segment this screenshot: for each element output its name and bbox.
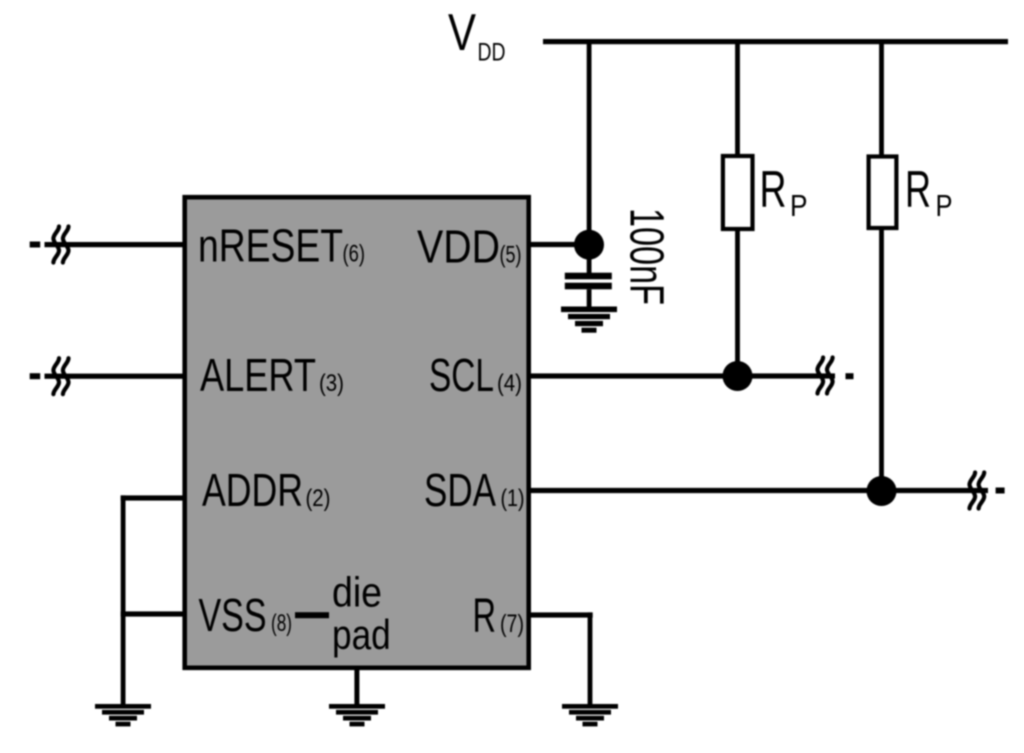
pin VDD(5) label <box>417 221 522 273</box>
wire Rp1 to SCL node <box>735 229 740 376</box>
resistor Rp2 (pull-up on SDA) <box>869 157 897 229</box>
ground (left, ADDR/VSS) <box>95 704 151 726</box>
node junction dot (SDA) <box>867 476 897 506</box>
wire VDD pin to decoupling node <box>529 242 591 247</box>
svg-text:SCL: SCL <box>429 349 494 401</box>
wire ADDR-VSS-ground vertical <box>121 495 126 704</box>
svg-text:VDD: VDD <box>417 221 500 273</box>
pin ALERT(3) label <box>200 349 344 401</box>
net VDD label <box>448 3 506 67</box>
pin SDA(1) label <box>424 464 525 516</box>
wire R pin to ground drop <box>529 612 593 617</box>
wire VDD rail to resistor Rp2 <box>879 42 884 156</box>
node junction dot (SCL) <box>723 361 753 391</box>
node junction dot (VDD / 100nF) <box>574 230 604 260</box>
wire die pad to ground <box>354 668 359 704</box>
svg-text:(7): (7) <box>500 610 524 638</box>
svg-text:nRESET: nRESET <box>198 220 343 272</box>
break symbol ALERT (squiggles) <box>53 358 68 394</box>
break symbol nRESET (squiggles) <box>53 227 68 263</box>
svg-text:(5): (5) <box>500 242 522 269</box>
svg-text:R: R <box>473 590 497 643</box>
resistor Rp1 (pull-up on SCL) <box>723 156 753 229</box>
svg-text:V: V <box>448 3 477 61</box>
svg-text:(2): (2) <box>306 485 331 512</box>
resistor Rp2 label <box>905 161 953 223</box>
wire ADDR pin (to left then down) <box>121 495 183 500</box>
ground (under R pin) <box>562 704 618 726</box>
break symbol SDA (squiggles) <box>970 473 985 509</box>
svg-text:(6): (6) <box>343 241 366 268</box>
pin ADDR(2) label <box>202 464 331 516</box>
wire VSS pin <box>121 611 183 616</box>
wire nRESET pin <box>45 242 184 247</box>
break symbol SCL (dash) <box>846 373 854 379</box>
svg-text:ALERT: ALERT <box>200 349 316 401</box>
svg-text:P: P <box>790 188 808 223</box>
pin R(7) label <box>473 590 525 643</box>
break symbol ALERT (dash) <box>30 373 41 379</box>
svg-text:SDA: SDA <box>424 464 496 516</box>
svg-text:pad: pad <box>332 611 391 658</box>
capacitor C 100nF (bottom plate) <box>565 283 612 290</box>
svg-text:(1): (1) <box>501 485 525 512</box>
ground (under capacitor) <box>561 307 617 333</box>
pin VSS(8) label <box>199 589 293 641</box>
svg-text:(8): (8) <box>271 610 292 637</box>
wire capacitor to ground <box>587 289 592 307</box>
wire VDD rail drop to node <box>587 42 592 246</box>
die pad label <box>332 569 391 658</box>
svg-text:(3): (3) <box>319 370 344 397</box>
svg-text:DD: DD <box>478 39 506 67</box>
break symbol SDA (dash) <box>996 488 1005 494</box>
svg-text:R: R <box>760 161 787 219</box>
capacitor C 100nF (top plate) <box>565 273 612 280</box>
svg-text:VSS: VSS <box>199 589 267 641</box>
break symbol nRESET (dash) <box>30 242 41 248</box>
IC U1 (8-pin package, gray body) <box>185 197 529 668</box>
pin nRESET(6) label <box>198 220 365 272</box>
svg-text:(4): (4) <box>497 370 522 397</box>
svg-text:R: R <box>905 161 931 219</box>
svg-text:ADDR: ADDR <box>202 464 303 516</box>
wire ALERT pin <box>45 374 184 379</box>
svg-text:die: die <box>332 569 382 616</box>
pin SCL(4) label <box>429 349 522 401</box>
ground (die pad) <box>329 704 385 726</box>
break symbol SCL (squiggles) <box>818 358 833 394</box>
svg-text:P: P <box>936 188 953 223</box>
wire R pin vertical to ground <box>588 612 593 704</box>
wire SDA pin <box>529 488 988 493</box>
resistor Rp1 label <box>760 161 808 223</box>
wire SCL pin <box>529 373 835 378</box>
wire node to capacitor <box>587 255 592 274</box>
die pad connection dash <box>295 612 329 618</box>
wire VDD power rail <box>543 39 1008 44</box>
wire Rp2 to SDA node <box>879 228 884 491</box>
wire VDD rail to resistor Rp1 <box>735 42 740 155</box>
svg-text:100nF: 100nF <box>620 208 673 305</box>
